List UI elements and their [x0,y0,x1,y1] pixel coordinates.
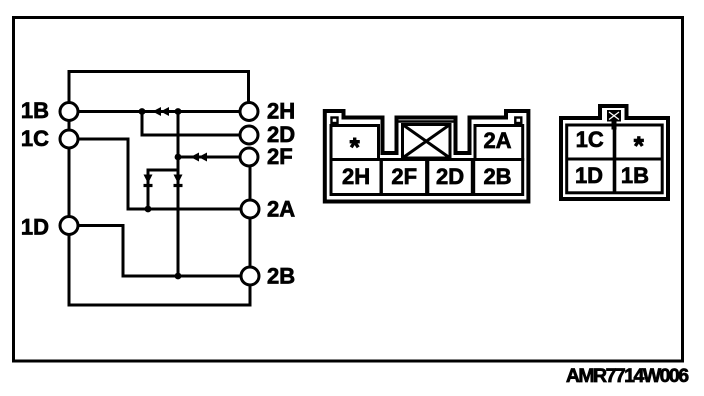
svg-text:AMR7714W006: AMR7714W006 [566,365,689,387]
connector X1 lock square left [332,118,338,124]
svg-text:2B: 2B [483,164,511,189]
svg-text:2H: 2H [342,164,370,189]
wire: vertical x=178 from 1B wire down through diode to 2B wire [177,112,180,277]
wire: 1B to 2H horizontal [77,110,241,113]
svg-text:1B: 1B [21,98,49,123]
junction dot C [175,154,182,161]
node 2H [240,103,258,121]
svg-text:2F: 2F [391,164,417,189]
wire: 2F branch [178,156,241,159]
connector X1 bottom row cavities [331,160,523,195]
svg-text:2A: 2A [483,128,511,153]
star in connector X2 [634,136,644,146]
wire: right bus 2F to 2A to 2B [249,166,252,268]
connector X1 lock square right [515,118,521,124]
wire: top loop 1B to 2H [69,72,249,105]
node 2B [241,267,259,285]
node 2F [240,148,258,166]
connector X2 lock tab black box [607,110,621,122]
svg-text:1C: 1C [576,127,604,152]
node 1B [60,103,78,121]
connector X2 (4-cavity) outer shell [561,106,668,199]
wire: 1D to 2B [77,226,241,277]
connector X2 lock tab stub [612,122,617,130]
node 2A [241,200,259,218]
node 1C [60,130,78,148]
wire: left diode leg down to 2A line [147,182,150,209]
svg-text:2H: 2H [267,99,295,124]
junction dot E [175,273,182,280]
junction dot A [139,108,146,115]
connector X1 cavity * [331,126,379,160]
svg-text:2D: 2D [436,164,464,189]
diode D2 (right, cathode down) [174,175,183,186]
svg-text:2A: 2A [267,197,295,222]
junction dot D [145,206,152,213]
svg-text:1B: 1B [621,163,649,188]
chevron symbol on 2F wire [191,153,208,162]
junction dot B [175,108,182,115]
svg-text:2F: 2F [267,144,293,169]
wire: 1C to 2A [77,139,241,209]
svg-text:1C: 1C [21,126,49,151]
wire: left bus vertical through 1B 1C 1D [69,104,250,305]
connector X2 lock tab white X [609,112,619,120]
wire: diode top bar [148,170,178,184]
svg-text:2B: 2B [267,264,295,289]
connector X1 raised top inner line [398,120,454,123]
chevron symbol on 1B-2H wire [153,107,170,116]
node 2D [240,126,258,144]
diode D1 (left, cathode down) [144,175,153,186]
star in cavity [350,138,360,148]
svg-text:1D: 1D [575,163,603,188]
connector X1 keyway X-box [403,125,451,159]
connector X1 (8-cavity) outer shell [325,111,529,202]
wire: branch junction to 2D [142,112,241,136]
svg-text:1D: 1D [21,215,49,240]
connector X2 cavity grid [567,125,663,193]
node 1D [60,217,78,235]
connector X1 cavity 2A [475,126,523,160]
